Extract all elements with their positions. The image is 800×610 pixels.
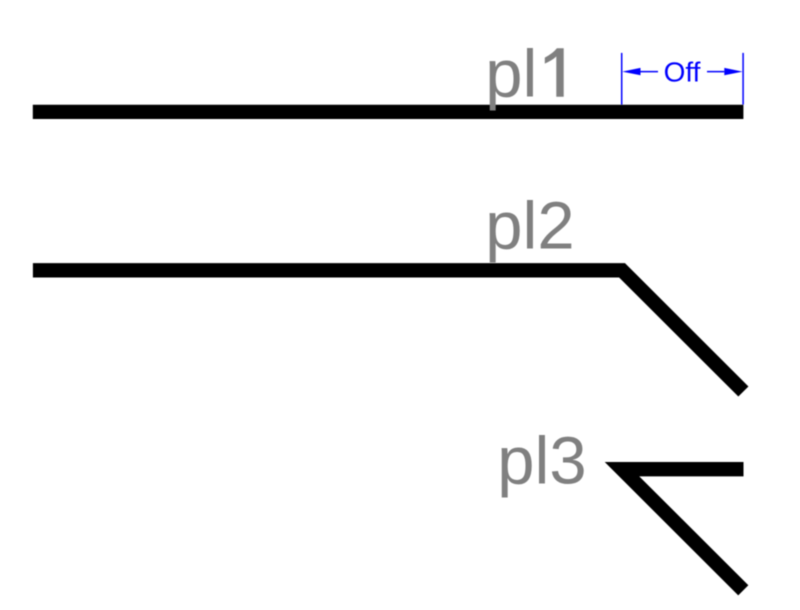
dimension Off left arrow bbox=[622, 68, 658, 75]
label pl1 bbox=[485, 37, 564, 112]
polyline pl3 bbox=[622, 469, 744, 590]
dimension Off extension line right bbox=[742, 53, 744, 105]
polyline pl1 bbox=[33, 105, 744, 119]
svg-text:pl3: pl3 bbox=[497, 424, 586, 499]
dimension Off extension line left bbox=[621, 53, 623, 105]
svg-text:pl2: pl2 bbox=[485, 189, 574, 264]
svg-text:Off: Off bbox=[664, 57, 701, 88]
svg-text:pl: pl bbox=[485, 37, 537, 112]
dimension Off right arrow bbox=[707, 68, 743, 75]
polyline pl2 bbox=[33, 270, 744, 391]
